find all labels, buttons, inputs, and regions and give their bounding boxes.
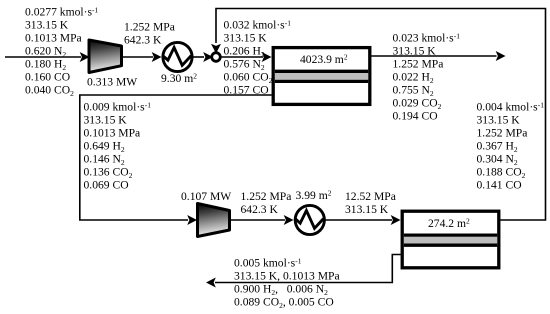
wire M2 retentate recycle to junction [211, 9, 546, 221]
svg-text:642.3 K: 642.3 K [241, 203, 279, 216]
svg-text:4023.9 m2: 4023.9 m2 [300, 53, 348, 67]
svg-text:0.141 CO: 0.141 CO [477, 179, 522, 192]
label M1 area 4023.9 m2 [300, 53, 348, 67]
svg-text:0.1013 MPa: 0.1013 MPa [25, 32, 82, 45]
membrane module M1 [273, 48, 370, 105]
svg-text:1.252 MPa: 1.252 MPa [477, 127, 528, 140]
heat exchanger HX1 [162, 42, 192, 71]
label K1 value 0.313 MW [87, 76, 137, 89]
svg-text:9.30 m2: 9.30 m2 [161, 72, 197, 86]
label stream into M1 [224, 19, 292, 97]
wire M1 retentate out [372, 51, 506, 61]
heat exchanger HX2 [295, 205, 325, 234]
svg-text:313.15 K: 313.15 K [393, 45, 437, 58]
label HX2 area 3.99 m2 [296, 188, 332, 202]
svg-text:3.99 m2: 3.99 m2 [296, 188, 332, 202]
label stream after K1: 1.252 MPa / 642.3 K [124, 21, 175, 47]
svg-text:0.107 MW: 0.107 MW [181, 190, 231, 203]
svg-text:0.023 kmol·s-1: 0.023 kmol·s-1 [393, 31, 461, 44]
label M2 area 274.2 m2 [428, 217, 470, 231]
svg-text:1.252 MPa: 1.252 MPa [241, 190, 292, 203]
wire K2 to HX2 [230, 215, 294, 225]
svg-text:274.2 m2: 274.2 m2 [428, 217, 470, 231]
label M2 permeate stream [234, 256, 340, 310]
wire M2 permeate out [206, 255, 401, 288]
membrane module M2 [402, 211, 499, 268]
svg-text:313.15 K: 313.15 K [84, 114, 128, 127]
label stream after K2: 1.252 MPa / 642.3 K [241, 190, 292, 216]
label HX1 area 9.30 m2 [161, 72, 197, 86]
compressor K2 [198, 204, 230, 237]
svg-text:0.004 kmol·s-1: 0.004 kmol·s-1 [477, 100, 545, 113]
label stream into M2: 12.52 MPa / 313.15 K [345, 190, 396, 216]
svg-text:313.15 K: 313.15 K [345, 203, 389, 216]
wire HX1 to junction [192, 52, 213, 62]
junction node (mixer) [212, 53, 221, 62]
label feed stream [25, 5, 98, 98]
label K2 value 0.107 MW [181, 190, 231, 203]
svg-text:313.15 K: 313.15 K [224, 32, 268, 45]
label recycle stream [477, 100, 545, 191]
label M1 retentate stream [393, 31, 461, 122]
svg-text:0.005 kmol·s-1: 0.005 kmol·s-1 [234, 256, 302, 269]
svg-text:0.089 CO2, 0.005 CO: 0.089 CO2, 0.005 CO [234, 296, 334, 310]
svg-text:0.040 CO2: 0.040 CO2 [25, 84, 74, 98]
svg-text:0.160 CO: 0.160 CO [25, 71, 70, 84]
svg-text:313.15 K: 313.15 K [477, 114, 521, 127]
svg-text:313.15 K, 0.1013 MPa: 313.15 K, 0.1013 MPa [234, 270, 340, 283]
svg-text:0.313 MW: 0.313 MW [87, 76, 137, 89]
svg-text:0.0277 kmol·s-1: 0.0277 kmol·s-1 [25, 5, 98, 18]
compressor K1 [89, 40, 122, 73]
svg-text:313.15 K: 313.15 K [25, 19, 69, 32]
wire M1 permeate to K2 [79, 95, 272, 225]
wire feed inlet [5, 52, 90, 62]
svg-text:642.3 K: 642.3 K [124, 34, 162, 47]
svg-text:1.252 MPa: 1.252 MPa [124, 21, 175, 34]
svg-text:0.1013 MPa: 0.1013 MPa [84, 127, 141, 140]
label M1 permeate stream [84, 100, 152, 191]
svg-text:12.52 MPa: 12.52 MPa [345, 190, 396, 203]
wire junction to membrane M1 [220, 52, 272, 62]
svg-text:1.252 MPa: 1.252 MPa [393, 58, 444, 71]
wire HX2 to membrane M2 [324, 215, 400, 225]
svg-text:0.032 kmol·s-1: 0.032 kmol·s-1 [224, 19, 292, 32]
svg-text:0.069 CO: 0.069 CO [84, 179, 129, 192]
wire K1 to HX1 [122, 52, 162, 62]
svg-text:0.009 kmol·s-1: 0.009 kmol·s-1 [84, 100, 152, 113]
svg-text:0.194 CO: 0.194 CO [393, 110, 438, 123]
